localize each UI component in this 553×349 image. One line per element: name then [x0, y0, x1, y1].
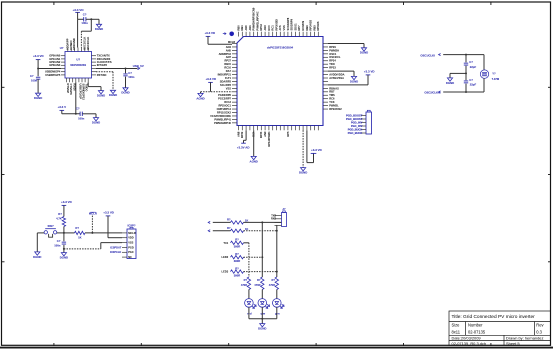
svg-text:grn: grn	[275, 312, 280, 316]
svg-text:AN1: AN1	[248, 25, 252, 31]
wire	[38, 68, 61, 70]
junction	[91, 232, 93, 234]
resistor R3 1K	[231, 221, 244, 224]
svg-text:TDO: TDO	[329, 62, 334, 66]
wire	[37, 232, 44, 234]
svg-text:VSS/GND: VSS/GND	[72, 38, 76, 50]
svg-text:DGND: DGND	[95, 27, 103, 31]
svg-text:PGC: PGC	[128, 250, 134, 254]
wire	[90, 19, 92, 31]
svg-text:R?: R?	[257, 278, 261, 282]
svg-text:OSC1/CLK: OSC1/CLK	[82, 37, 86, 50]
svg-text:4.7K: 4.7K	[56, 217, 62, 221]
wire	[63, 245, 65, 253]
LED red	[245, 299, 254, 308]
svg-text:RP23: RP23	[329, 66, 336, 70]
svg-text:RP33: RP33	[259, 131, 263, 138]
junction	[90, 18, 92, 20]
wire	[108, 237, 122, 239]
ground DGND	[351, 76, 356, 79]
svg-text:SDI1/RP9: SDI1/RP9	[290, 18, 294, 30]
svg-text:DGND: DGND	[360, 51, 368, 55]
svg-text:R?: R?	[58, 212, 62, 216]
wire	[63, 227, 65, 233]
wire	[248, 290, 250, 299]
svg-text:DGND: DGND	[109, 93, 117, 97]
svg-text:DGND: DGND	[33, 255, 41, 259]
svg-text:8x11: 8x11	[452, 330, 461, 335]
wire	[81, 30, 91, 32]
capacitor C10 100n	[63, 233, 65, 241]
svg-text:RXD: RXD	[271, 218, 276, 221]
U1 left pins	[232, 44, 237, 123]
svg-text:RP24: RP24	[329, 59, 336, 63]
svg-text:AN8: AN8	[236, 131, 240, 137]
svg-text:VDD: VDD	[128, 236, 134, 240]
svg-text:AGND: AGND	[250, 159, 258, 163]
svg-text:TCK: TCK	[329, 100, 334, 104]
svg-text:390R: 390R	[234, 273, 241, 277]
wire	[112, 72, 114, 91]
svg-text:VSS: VSS	[226, 86, 231, 90]
svg-text:470R: 470R	[254, 283, 260, 287]
wire	[313, 153, 315, 162]
wire VUSB	[96, 68, 138, 70]
wire	[363, 44, 365, 48]
svg-text:SDO1: SDO1	[293, 23, 297, 31]
wire	[101, 242, 122, 244]
svg-text:U?: U?	[76, 58, 80, 62]
svg-text:FLT1: FLT1	[225, 76, 232, 80]
wire	[449, 73, 451, 78]
svg-text:390R: 390R	[234, 259, 241, 263]
svg-text:PGC_BOOST: PGC_BOOST	[346, 117, 363, 121]
connector J1 ICSP	[127, 229, 136, 259]
connector J2 pins	[361, 116, 366, 134]
wire	[77, 19, 79, 47]
svg-text:02-07135_R0.3.dch: 02-07135_R0.3.dch	[452, 341, 487, 346]
svg-text:PGD_BOOST: PGD_BOOST	[346, 113, 363, 117]
svg-text:C?: C?	[469, 60, 473, 64]
capacitor C4	[464, 62, 468, 64]
resistor R6 390R	[231, 256, 244, 259]
wire	[261, 222, 263, 257]
svg-text:RP12/PWM4: RP12/PWM4	[267, 131, 271, 147]
U1 bottom pin labels	[236, 131, 289, 147]
junction	[261, 318, 263, 320]
U1 right pins	[323, 44, 328, 110]
svg-text:RB15: RB15	[224, 62, 231, 66]
svg-text:RP20/SDI: RP20/SDI	[274, 19, 278, 31]
svg-text:100n: 100n	[128, 75, 135, 79]
resistor R7 390R	[231, 270, 244, 273]
svg-text:+3.3 VD: +3.3 VD	[61, 200, 72, 204]
svg-text:PGC_INV: PGC_INV	[351, 124, 363, 128]
svg-text:Rev: Rev	[536, 323, 544, 328]
svg-text:7.37M: 7.37M	[492, 77, 500, 81]
U2 right pin labels	[97, 54, 112, 77]
wire	[245, 130, 247, 140]
svg-text:MCP2200/SS: MCP2200/SS	[70, 63, 86, 67]
svg-text:SCL/RP3: SCL/RP3	[220, 83, 232, 87]
U2 left pin labels	[45, 54, 61, 77]
wire	[261, 319, 263, 324]
wire	[244, 139, 247, 141]
svg-text:100n: 100n	[31, 79, 38, 83]
svg-text:AGND: AGND	[196, 96, 204, 100]
port arrow USB_5V	[138, 67, 140, 69]
svg-text:+3.3 VD: +3.3 VD	[33, 54, 44, 58]
svg-text:RP27: RP27	[225, 59, 232, 63]
capacitor C6 100n	[83, 17, 85, 21]
svg-text:02-07135: 02-07135	[468, 330, 486, 335]
svg-text:RB1: RB1	[240, 25, 244, 31]
svg-text:+3.3 VD: +3.3 VD	[103, 211, 114, 215]
wire	[306, 130, 308, 162]
wire	[85, 232, 122, 234]
svg-text:AN4: AN4	[226, 45, 232, 49]
svg-text:VUSB/C: VUSB/C	[69, 40, 73, 50]
svg-text:100n: 100n	[78, 116, 85, 120]
svg-text:R?: R?	[227, 217, 231, 221]
wire	[328, 43, 364, 45]
wire MCLR	[207, 36, 209, 44]
wire	[213, 221, 231, 223]
svg-text:470R: 470R	[241, 283, 247, 287]
connector J3 UART	[282, 213, 287, 227]
svg-text:INT/GP2: INT/GP2	[97, 63, 108, 67]
svg-text:ICSPDAT: ICSPDAT	[110, 245, 122, 249]
svg-text:C?: C?	[76, 106, 80, 110]
wire	[276, 224, 278, 226]
wire	[244, 221, 282, 223]
svg-text:AN3: AN3	[263, 25, 267, 31]
wire	[64, 232, 75, 234]
svg-text:LED3: LED3	[222, 270, 229, 274]
svg-text:Size: Size	[452, 323, 461, 328]
LED grn	[273, 299, 282, 308]
wire	[244, 256, 263, 258]
wire	[465, 55, 467, 63]
svg-text:AN7: AN7	[226, 55, 232, 59]
resistor R4 1K	[231, 229, 244, 232]
svg-text:RST/NC: RST/NC	[97, 73, 107, 77]
svg-text:PWM1H/RP35/CN9: PWM1H/RP35/CN9	[252, 7, 256, 30]
wire	[302, 130, 304, 167]
wire	[328, 70, 354, 72]
wire	[100, 243, 102, 249]
junction	[63, 248, 65, 250]
wire	[253, 130, 255, 156]
svg-text:RP24/SS: RP24/SS	[309, 20, 313, 31]
wire	[443, 91, 484, 93]
junction	[261, 221, 263, 223]
svg-text:SCK1/RP8: SCK1/RP8	[286, 17, 290, 30]
wire	[201, 91, 233, 93]
wire	[276, 231, 278, 272]
svg-text:VSS: VSS	[282, 25, 286, 30]
junction	[276, 230, 278, 232]
svg-text:+3.3 V: +3.3 V	[58, 105, 67, 109]
svg-text:+3.3 VD: +3.3 VD	[311, 148, 322, 152]
junction	[75, 113, 77, 115]
capacitor C8 100n	[79, 112, 81, 116]
svg-text:RB7: RB7	[329, 90, 335, 94]
svg-text:R?: R?	[235, 238, 239, 242]
svg-text:OSC2/CL: OSC2/CL	[329, 55, 341, 59]
wire	[96, 71, 113, 73]
svg-text:SDA/RP2: SDA/RP2	[220, 79, 232, 83]
junction	[465, 72, 467, 74]
svg-text:AN5: AN5	[226, 48, 232, 52]
U1 top pin labels	[236, 7, 320, 30]
wire	[63, 205, 65, 216]
svg-text:RP22/CN2: RP22/CN2	[329, 107, 342, 111]
ground AGND	[198, 93, 203, 96]
ground DGND	[301, 168, 306, 171]
U1 left pin labels	[210, 45, 231, 125]
svg-text:RP11/SCK2: RP11/SCK2	[217, 110, 232, 114]
svg-text:PGC_BUCK: PGC_BUCK	[348, 131, 363, 135]
junction	[63, 232, 65, 234]
wire	[244, 271, 277, 273]
svg-text:C?: C?	[30, 74, 34, 78]
svg-text:U?: U?	[60, 46, 64, 50]
wire	[125, 77, 127, 88]
connector J1 pins	[122, 233, 127, 257]
ground DGND	[61, 253, 66, 256]
title block text	[452, 314, 545, 346]
wire	[248, 307, 250, 319]
svg-text:+3.3 VD: +3.3 VD	[72, 8, 84, 12]
wire	[95, 114, 97, 118]
wire	[87, 82, 89, 86]
svg-text:1K: 1K	[78, 235, 82, 239]
svg-text:RP32: RP32	[240, 131, 244, 138]
resistor R9 470R	[261, 277, 264, 290]
crystal Y1	[480, 70, 488, 78]
svg-text:TX1: TX1	[223, 241, 228, 245]
svg-text:AVS: AVS	[278, 25, 282, 30]
svg-text:AVDD/VDDA: AVDD/VDDA	[329, 72, 344, 76]
svg-text:USBDP/GP5: USBDP/GP5	[45, 73, 61, 77]
svg-text:PWM2H: PWM2H	[329, 48, 339, 52]
svg-text:DGND: DGND	[350, 79, 358, 83]
wire	[200, 92, 202, 94]
resistor R2 1K	[75, 231, 86, 234]
svg-text:DGND: DGND	[60, 256, 68, 260]
U2 top pin labels	[65, 37, 89, 50]
svg-text:R?: R?	[235, 252, 239, 256]
svg-text:22pF: 22pF	[470, 65, 477, 69]
wire	[483, 78, 485, 92]
svg-text:INDX/RP21: INDX/RP21	[218, 72, 232, 76]
wire	[244, 242, 249, 244]
svg-text:RB5: RB5	[312, 25, 316, 31]
svg-text:SW?: SW?	[47, 224, 54, 228]
svg-text:C?: C?	[83, 13, 87, 17]
U2 bottom pin labels	[66, 84, 89, 101]
ground DGND	[93, 118, 98, 121]
wire	[62, 113, 80, 115]
svg-text:DGND: DGND	[92, 121, 100, 125]
pushbutton SW1	[44, 231, 47, 234]
svg-text:ICSPCLK: ICSPCLK	[110, 250, 122, 254]
svg-text:RC8/CN: RC8/CN	[301, 21, 305, 31]
svg-text:PGC2/RP7: PGC2/RP7	[218, 97, 231, 101]
svg-text:22pF: 22pF	[470, 83, 477, 87]
svg-text:Y?: Y?	[492, 72, 496, 76]
svg-text:Number: Number	[468, 323, 483, 328]
svg-text:VCAP/VDDCORE: VCAP/VDDCORE	[210, 114, 231, 118]
wire	[77, 12, 79, 19]
svg-text:PGD_BUCK: PGD_BUCK	[348, 127, 363, 131]
svg-text:OSC1/CLKI: OSC1/CLKI	[420, 54, 435, 58]
ground DGND	[260, 324, 265, 327]
svg-text:C?: C?	[128, 71, 132, 75]
svg-text:RP29: RP29	[329, 45, 336, 49]
svg-text:RP5: RP5	[286, 131, 290, 137]
U2 left pins	[61, 56, 65, 75]
wire	[248, 243, 250, 277]
connector J2 net labels	[346, 113, 363, 134]
ground DGND	[447, 78, 452, 81]
ground DGND	[96, 24, 101, 27]
wire	[37, 60, 39, 69]
wire	[88, 86, 101, 88]
svg-text:dsPIC33FJ16GS504: dsPIC33FJ16GS504	[267, 45, 294, 49]
svg-text:DGND: DGND	[258, 327, 266, 331]
svg-text:+3.3V AD: +3.3V AD	[237, 145, 250, 149]
svg-text:RB6/AS: RB6/AS	[329, 86, 339, 90]
wire	[244, 230, 277, 232]
svg-text:VSS: VSS	[128, 241, 133, 245]
wire	[78, 18, 84, 20]
wire	[243, 140, 245, 143]
svg-text:100n: 100n	[54, 243, 61, 247]
svg-text:R?: R?	[227, 226, 231, 230]
wire	[367, 75, 369, 85]
connector J3 pins	[275, 216, 282, 226]
resistor R5 390R	[231, 241, 244, 244]
connector J2 (programming header right)	[366, 112, 372, 134]
wire	[213, 230, 231, 232]
svg-text:R?: R?	[272, 278, 276, 282]
svg-text:ylw: ylw	[261, 312, 266, 316]
junction	[276, 271, 278, 273]
svg-text:RC10: RC10	[224, 66, 231, 70]
wire	[91, 216, 93, 233]
svg-text:OSC1: OSC1	[329, 52, 337, 56]
title block outline	[449, 311, 551, 346]
IC U2 body	[65, 52, 92, 79]
svg-text:+3.3 VD: +3.3 VD	[204, 31, 215, 35]
svg-text:AVSS/VSSA: AVSS/VSSA	[329, 76, 344, 80]
wire	[80, 31, 82, 47]
wire	[100, 87, 102, 91]
wire	[75, 82, 77, 114]
ground DGND	[361, 48, 366, 51]
wire	[61, 110, 63, 113]
svg-text:AN6/RP16: AN6/RP16	[219, 52, 232, 56]
svg-text:390R: 390R	[234, 245, 241, 249]
ground DGND	[123, 88, 128, 91]
capacitor C9 100n	[125, 69, 127, 74]
svg-text:DGND: DGND	[97, 94, 105, 98]
svg-text:AN9: AN9	[263, 131, 267, 137]
svg-text:ICSP?: ICSP?	[128, 223, 136, 227]
wire	[37, 79, 39, 93]
svg-text:PGD2/RP6: PGD2/RP6	[218, 93, 231, 97]
svg-text:470R: 470R	[269, 283, 275, 287]
svg-text:RC0: RC0	[267, 25, 271, 31]
wire	[450, 72, 466, 74]
resistor R10 470R	[275, 277, 278, 290]
svg-text:+3.3 VD: +3.3 VD	[364, 70, 375, 74]
svg-text:100n: 100n	[81, 21, 88, 25]
svg-text:RA7: RA7	[226, 69, 232, 73]
junction	[37, 68, 39, 70]
pin1 arrow mark	[223, 33, 226, 35]
svg-text:TMS: TMS	[329, 93, 335, 97]
ground DGND	[110, 90, 115, 93]
svg-text:PGD_INV: PGD_INV	[351, 120, 363, 124]
wire	[353, 71, 355, 76]
wire	[276, 290, 278, 299]
U2 top pins	[68, 48, 88, 52]
U1 bottom pins	[239, 126, 319, 131]
junction	[465, 91, 467, 93]
wire	[98, 19, 100, 24]
ground DGND	[36, 93, 41, 96]
svg-text:DGND: DGND	[446, 81, 454, 85]
wire	[210, 82, 212, 91]
svg-text:0.3: 0.3	[536, 330, 542, 335]
wire	[261, 257, 263, 277]
svg-text:J?: J?	[282, 207, 286, 211]
wire	[57, 232, 64, 234]
svg-text:PWM2L: PWM2L	[329, 104, 339, 108]
junction	[465, 54, 467, 56]
svg-text:1K: 1K	[245, 227, 249, 231]
svg-text:LED2: LED2	[222, 255, 229, 259]
svg-text:OSC2/CLKO: OSC2/CLKO	[424, 91, 440, 95]
svg-text:+3.3 VD: +3.3 VD	[205, 77, 216, 81]
svg-text:AN0: AN0	[244, 25, 248, 31]
wire	[328, 84, 368, 86]
svg-text:C?: C?	[57, 239, 61, 243]
svg-text:PWM3H/RP40: PWM3H/RP40	[214, 121, 231, 125]
wire	[82, 113, 96, 115]
svg-text:RP19/S: RP19/S	[316, 21, 320, 30]
svg-text:R?: R?	[235, 266, 239, 270]
ground DGND	[35, 252, 40, 255]
svg-text:NC: NC	[128, 255, 132, 259]
svg-text:C?: C?	[469, 78, 473, 82]
wire	[465, 84, 467, 92]
port TX	[208, 221, 210, 223]
svg-text:RP7: RP7	[297, 25, 301, 31]
wire	[276, 307, 278, 319]
svg-text:DGND: DGND	[34, 96, 42, 100]
wire	[465, 73, 467, 80]
U2 right pins	[92, 56, 97, 75]
svg-text:DGND: DGND	[121, 91, 129, 95]
wire	[37, 69, 39, 77]
power +3.3VD (bottom)	[311, 152, 317, 154]
wire	[261, 290, 263, 299]
svg-text:RB0: RB0	[236, 25, 240, 31]
